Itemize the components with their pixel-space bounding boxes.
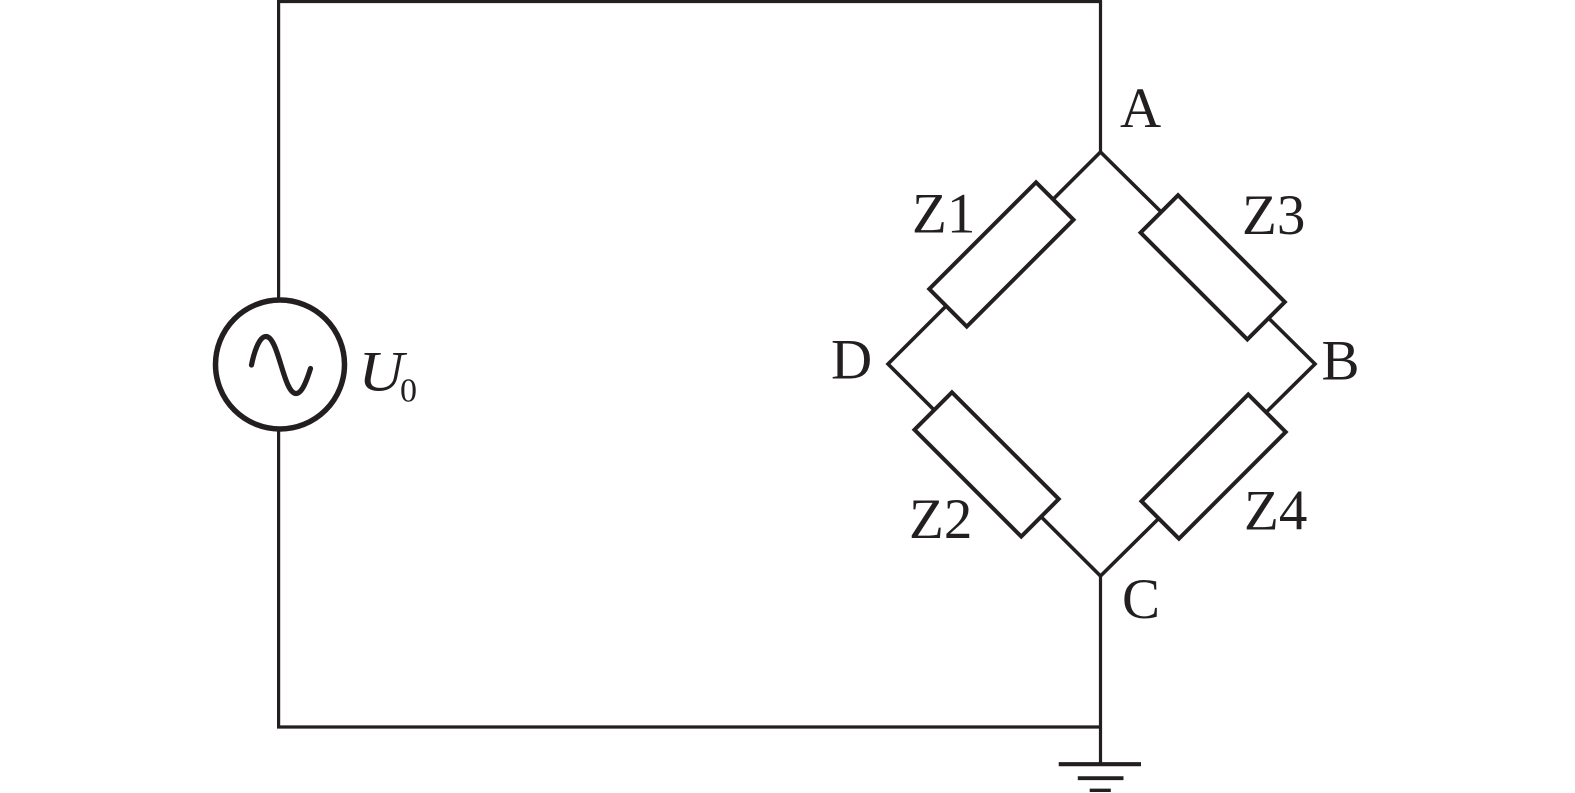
svg-text:Z4: Z4 (1244, 480, 1307, 543)
svg-text:Z1: Z1 (912, 183, 975, 246)
svg-text:Z3: Z3 (1242, 184, 1305, 247)
svg-text:0: 0 (400, 373, 417, 410)
svg-text:C: C (1122, 568, 1160, 631)
svg-text:D: D (831, 329, 872, 392)
svg-text:Z2: Z2 (909, 488, 972, 551)
svg-text:A: A (1120, 77, 1161, 140)
svg-text:B: B (1322, 330, 1360, 393)
